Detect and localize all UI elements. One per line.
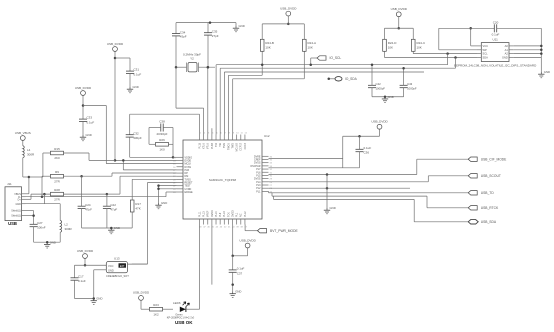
svg-text:10K: 10K (265, 46, 270, 50)
svg-text:USB_SDA: USB_SDA (481, 220, 497, 224)
svg-text:C31: C31 (134, 68, 140, 72)
svg-text:GND: GND (239, 24, 245, 28)
svg-text:45pF: 45pF (180, 35, 187, 39)
svg-text:A2: A2 (505, 52, 509, 56)
svg-text:SCL: SCL (483, 52, 489, 56)
svg-text:DVDD: DVDD (211, 210, 214, 217)
svg-text:GND: GND (161, 201, 167, 205)
svg-text:DVDD: DVDD (231, 210, 234, 217)
svg-text:GND: GND (50, 240, 56, 244)
svg-text:R17: R17 (135, 202, 141, 206)
svg-text:L2: L2 (65, 223, 69, 227)
svg-text:C33: C33 (87, 116, 93, 120)
svg-text:GND: GND (108, 268, 114, 272)
svg-text:IO_SCL: IO_SCL (330, 56, 342, 60)
svg-text:47pF: 47pF (110, 208, 117, 212)
svg-text:VREF: VREF (207, 210, 210, 217)
svg-text:R15: R15 (54, 147, 60, 151)
svg-text:20/30pF: 20/30pF (156, 132, 167, 136)
svg-text:1K0: 1K0 (159, 148, 165, 152)
svg-text:10K: 10K (308, 46, 313, 50)
svg-text:1000pF: 1000pF (407, 86, 417, 90)
svg-text:USB_VBUS: USB_VBUS (15, 131, 31, 135)
svg-text:PL13: PL13 (203, 211, 206, 217)
svg-text:C22: C22 (110, 203, 116, 207)
svg-text:C37: C37 (237, 271, 243, 275)
svg-text:SAM3U2C_TQFP48: SAM3U2C_TQFP48 (209, 178, 237, 182)
svg-text:C32: C32 (133, 131, 139, 135)
svg-text:CCK7: CCK7 (244, 142, 247, 149)
svg-text:C24: C24 (85, 203, 91, 207)
svg-text:PL11: PL11 (198, 211, 201, 217)
svg-text:100nF: 100nF (37, 226, 46, 230)
svg-text:Shield(1): Shield(1) (11, 215, 21, 218)
svg-text:330pF: 330pF (133, 136, 142, 140)
svg-text:GND: GND (114, 226, 120, 230)
svg-text:GND: GND (388, 95, 394, 99)
svg-text:GND: GND (133, 85, 139, 89)
svg-text:TDI: TDI (215, 143, 218, 147)
svg-text:C17: C17 (78, 274, 84, 278)
svg-text:U13: U13 (114, 257, 120, 261)
svg-text:PL10: PL10 (223, 211, 226, 217)
svg-text:USB_DVDD: USB_DVDD (77, 249, 94, 253)
svg-text:USB_DVDD: USB_DVDD (391, 7, 408, 11)
svg-text:GND: GND (235, 290, 241, 294)
svg-text:TIA: TIA (219, 143, 222, 147)
svg-text:U11: U11 (493, 38, 499, 42)
svg-text:47pF: 47pF (85, 208, 92, 212)
svg-text:300R: 300R (65, 227, 73, 231)
svg-text:R24-B: R24-B (265, 41, 274, 45)
svg-text:WP: WP (483, 48, 487, 52)
svg-text:PL9: PL9 (219, 212, 222, 217)
svg-text:CRE4EBFGO_SOT: CRE4EBFGO_SOT (106, 274, 129, 278)
svg-text:TMS: TMS (223, 143, 226, 148)
svg-text:VCC: VCC (483, 44, 489, 48)
svg-text:27R: 27R (54, 179, 60, 183)
svg-text:USB_DVDD: USB_DVDD (239, 238, 256, 242)
svg-text:PL12: PL12 (244, 211, 247, 217)
svg-text:PL15: PL15 (198, 142, 201, 148)
svg-text:C38: C38 (159, 120, 165, 124)
svg-text:TWD: TWD (231, 143, 234, 149)
svg-text:USB_RTCK: USB_RTCK (481, 206, 499, 210)
svg-text:R28: R28 (54, 188, 60, 192)
svg-text:USB_CIF_MODE: USB_CIF_MODE (481, 157, 507, 161)
svg-text:PLSB: PLSB (211, 143, 214, 150)
svg-text:ERASE: ERASE (185, 191, 194, 194)
svg-text:C36: C36 (364, 151, 370, 155)
svg-text:USB_DVDD: USB_DVDD (133, 291, 150, 295)
svg-text:Shield(1): Shield(1) (11, 210, 21, 213)
svg-text:VTLK: VTLK (207, 143, 210, 149)
svg-text:XTLK: XTLK (203, 143, 206, 149)
svg-text:2K0: 2K0 (54, 156, 60, 160)
svg-text:27R: 27R (54, 197, 60, 201)
svg-text:GND: GND (96, 297, 102, 301)
svg-text:0.1uF: 0.1uF (492, 33, 500, 37)
svg-text:27pF: 27pF (212, 34, 219, 38)
svg-text:GND: GND (502, 56, 508, 60)
svg-text:SDA: SDA (483, 56, 489, 60)
svg-text:PL14: PL14 (215, 211, 218, 217)
svg-text:EXT: EXT (120, 265, 125, 268)
svg-text:USB_DVDD: USB_DVDD (107, 42, 124, 46)
svg-text:0.1uF: 0.1uF (134, 73, 142, 77)
svg-text:USB_SCOUT: USB_SCOUT (481, 174, 501, 178)
svg-text:PL1: PL1 (256, 190, 261, 193)
svg-text:USB_DVDD: USB_DVDD (371, 120, 388, 124)
svg-text:USB_DVDD: USB_DVDD (280, 6, 297, 10)
svg-text:VCC: VCC (108, 264, 114, 268)
svg-text:0.1uF: 0.1uF (78, 279, 86, 283)
svg-text:0.1uF: 0.1uF (87, 121, 95, 125)
svg-text:R24-C: R24-C (416, 41, 426, 45)
svg-text:0.1uF: 0.1uF (237, 267, 245, 271)
svg-text:EEPROM_24LC08_NON_VOLATILE_I2C: EEPROM_24LC08_NON_VOLATILE_I2C_DIPS_STAN… (454, 64, 537, 68)
svg-text:GND: GND (330, 206, 336, 210)
svg-text:C20: C20 (493, 20, 499, 24)
svg-text:USB_DVDD: USB_DVDD (75, 86, 92, 90)
svg-text:USB: USB (8, 221, 17, 226)
svg-text:BVT_PWR_MODE: BVT_PWR_MODE (270, 229, 298, 233)
svg-text:A1: A1 (505, 48, 509, 52)
svg-text:CCP17: CCP17 (240, 142, 243, 150)
svg-text:MCLKO: MCLKO (236, 143, 239, 152)
svg-text:USB_TD: USB_TD (481, 191, 495, 195)
svg-text:R9: R9 (55, 170, 59, 174)
svg-text:TCK: TCK (227, 212, 230, 217)
svg-text:LED6: LED6 (173, 301, 181, 305)
svg-text:47K: 47K (135, 206, 140, 210)
svg-text:IO_SDA: IO_SDA (345, 77, 358, 81)
svg-text:300R: 300R (27, 152, 35, 156)
svg-text:NC: NC (240, 213, 243, 217)
svg-text:R26: R26 (159, 138, 165, 142)
svg-text:10K: 10K (416, 46, 421, 50)
svg-text:TWCK: TWCK (227, 143, 230, 150)
svg-text:10K: 10K (388, 46, 393, 50)
svg-text:A0: A0 (505, 44, 509, 48)
svg-text:1000pF: 1000pF (376, 86, 386, 90)
svg-text:R23: R23 (153, 303, 159, 307)
svg-text:L4: L4 (27, 148, 31, 152)
svg-text:0.1uF: 0.1uF (364, 146, 372, 150)
svg-text:PL1: PL1 (236, 212, 239, 217)
svg-text:GND: GND (544, 70, 550, 74)
svg-text:1K2: 1K2 (153, 312, 159, 316)
svg-text:U12: U12 (264, 134, 270, 138)
svg-text:Y2: Y2 (190, 57, 194, 61)
svg-text:GND: GND (15, 203, 21, 206)
svg-text:GND: GND (86, 133, 92, 137)
svg-text:R24-A: R24-A (308, 41, 317, 45)
svg-text:J11: J11 (7, 182, 12, 186)
svg-text:C27: C27 (37, 221, 43, 225)
svg-text:USB OK: USB OK (175, 320, 193, 325)
svg-text:R24-D: R24-D (388, 41, 398, 45)
